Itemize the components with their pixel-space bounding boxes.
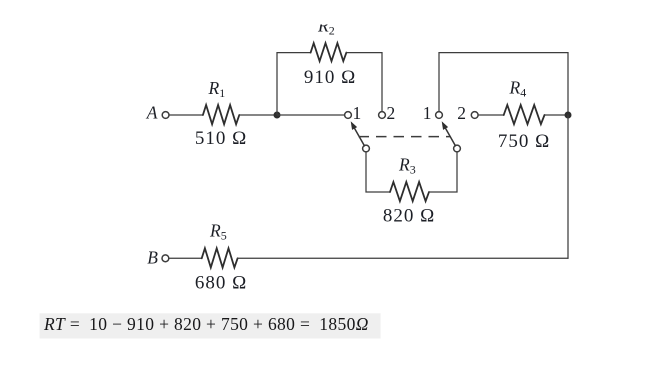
switch SW1 contact 2 (379, 103, 396, 123)
svg-text:510 Ω: 510 Ω (195, 128, 247, 149)
svg-text:RT = 10 − 910 + 820 + 750 + 68: RT = 10 − 910 + 820 + 750 + 680 = 1850Ω (43, 314, 369, 334)
wire B to R5 (169, 257, 202, 259)
equation RT total (40, 313, 381, 338)
node junction (R1/R2) (274, 112, 281, 119)
svg-text:R4: R4 (509, 78, 527, 100)
wire R3 up to pole SW2 (429, 152, 457, 192)
terminal A (146, 103, 169, 123)
svg-text:750 Ω: 750 Ω (498, 131, 550, 152)
resistor R4 (498, 78, 550, 153)
switch SW1 pole (363, 145, 370, 152)
svg-text:1: 1 (353, 103, 362, 123)
wire R5 to right corner (238, 257, 568, 259)
svg-text:680 Ω: 680 Ω (195, 273, 247, 294)
resistor R2 (304, 8, 356, 88)
wire R2 branch left vertical (277, 53, 311, 115)
switch SW2 contact 1 (436, 112, 443, 119)
wire pole SW1 down to R3 (366, 152, 390, 192)
switch SW1 blade with arrow (351, 121, 365, 146)
ganged switch dashed link (359, 136, 451, 138)
resistor R1 (195, 78, 247, 149)
wire R4 to node (545, 114, 569, 116)
terminal B (147, 248, 169, 268)
svg-text:2: 2 (457, 103, 466, 123)
svg-text:820 Ω: 820 Ω (383, 206, 435, 227)
resistor R5 (195, 221, 247, 294)
wire node down to B line (567, 115, 569, 258)
switch SW2 contact 2 (471, 112, 478, 119)
svg-text:910 Ω: 910 Ω (304, 67, 356, 88)
resistor R3 (383, 155, 435, 227)
svg-text:1: 1 (423, 103, 432, 123)
svg-text:R3: R3 (398, 155, 416, 177)
wire SW2 contact 1 up and over to node (439, 53, 568, 115)
switch SW2 blade with arrow (442, 121, 456, 146)
node junction (R4/top/bottom) (565, 112, 572, 119)
svg-text:R1: R1 (208, 78, 226, 100)
svg-text:A: A (146, 103, 158, 123)
wire node to switch contact 1 (277, 114, 345, 116)
wire SW2 contact 2 to R4 (478, 114, 504, 116)
wire A to R1 (169, 114, 203, 116)
switch SW2 pole (454, 145, 461, 152)
svg-text:B: B (147, 248, 158, 268)
svg-text:R5: R5 (209, 221, 227, 243)
wire R2 branch right vertical (346, 53, 382, 112)
svg-text:2: 2 (387, 103, 396, 123)
wire R1 to node (239, 114, 277, 116)
switch SW1 contact 1 (345, 103, 362, 123)
